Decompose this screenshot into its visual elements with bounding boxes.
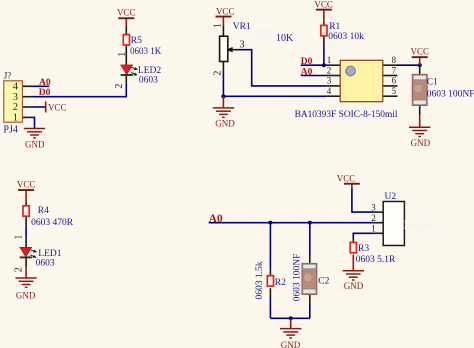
svg-text:3: 3 xyxy=(240,40,245,51)
svg-text:2: 2 xyxy=(212,71,223,76)
svg-text:R2: R2 xyxy=(275,278,286,288)
svg-text:8: 8 xyxy=(392,55,397,65)
svg-text:GND: GND xyxy=(16,290,36,300)
svg-text:A0: A0 xyxy=(39,78,51,88)
svg-text:GND: GND xyxy=(215,119,235,129)
svg-text:VCC: VCC xyxy=(337,174,356,184)
svg-text:Header 3: Header 3 xyxy=(404,218,449,232)
svg-text:BA10393F SOIC-8-150mil: BA10393F SOIC-8-150mil xyxy=(295,110,398,120)
svg-text:VCC: VCC xyxy=(411,47,430,57)
svg-text:VCC: VCC xyxy=(117,8,136,18)
svg-text:2: 2 xyxy=(13,267,24,272)
svg-text:GND: GND xyxy=(344,281,364,291)
svg-text:1: 1 xyxy=(13,235,24,240)
svg-text:R5: R5 xyxy=(131,36,142,46)
svg-text:0603 5.1R: 0603 5.1R xyxy=(356,255,396,265)
svg-text:0603 1.5k: 0603 1.5k xyxy=(255,261,265,299)
svg-text:R1: R1 xyxy=(329,22,340,32)
svg-text:VR1: VR1 xyxy=(233,22,251,32)
svg-text:3: 3 xyxy=(327,76,332,86)
svg-text:C2: C2 xyxy=(318,276,329,286)
svg-text:D0: D0 xyxy=(301,57,313,67)
svg-text:GND: GND xyxy=(411,138,431,148)
svg-text:0603 100NF: 0603 100NF xyxy=(427,89,474,99)
svg-text:1: 1 xyxy=(371,224,376,234)
svg-text:GND: GND xyxy=(281,340,301,348)
svg-text:4: 4 xyxy=(327,86,332,96)
svg-text:6: 6 xyxy=(392,76,397,86)
svg-text:R3: R3 xyxy=(358,244,369,254)
svg-text:1: 1 xyxy=(327,55,332,65)
svg-text:J?: J? xyxy=(4,70,12,80)
svg-text:1: 1 xyxy=(13,112,18,123)
svg-text:0603 10k: 0603 10k xyxy=(328,32,364,42)
svg-text:A0: A0 xyxy=(209,213,223,225)
svg-text:R4: R4 xyxy=(38,206,49,216)
svg-text:LED2: LED2 xyxy=(138,66,161,76)
svg-text:C1: C1 xyxy=(427,78,438,88)
svg-text:0603: 0603 xyxy=(36,259,55,269)
svg-text:5: 5 xyxy=(392,86,397,96)
svg-text:2: 2 xyxy=(327,65,332,75)
svg-text:1: 1 xyxy=(212,23,223,28)
svg-text:3: 3 xyxy=(371,202,376,212)
svg-text:PJ4: PJ4 xyxy=(3,125,17,136)
svg-text:7: 7 xyxy=(392,65,397,75)
svg-text:VCC: VCC xyxy=(17,180,36,190)
svg-text:VCC: VCC xyxy=(216,6,235,16)
svg-text:U2: U2 xyxy=(385,192,397,202)
svg-text:D0: D0 xyxy=(39,88,51,98)
svg-text:2: 2 xyxy=(371,213,376,223)
svg-text:2: 2 xyxy=(114,84,125,89)
svg-text:0603: 0603 xyxy=(139,76,158,86)
svg-text:0603 100NF: 0603 100NF xyxy=(293,254,303,302)
svg-text:0603 470R: 0603 470R xyxy=(31,218,74,228)
svg-text:VCC: VCC xyxy=(314,0,333,9)
svg-text:VCC: VCC xyxy=(48,102,67,112)
svg-text:A0: A0 xyxy=(301,68,313,78)
svg-text:GND: GND xyxy=(25,140,45,150)
svg-text:1: 1 xyxy=(117,52,128,57)
svg-text:0603 1K: 0603 1K xyxy=(130,46,162,56)
svg-text:10K: 10K xyxy=(276,33,294,44)
